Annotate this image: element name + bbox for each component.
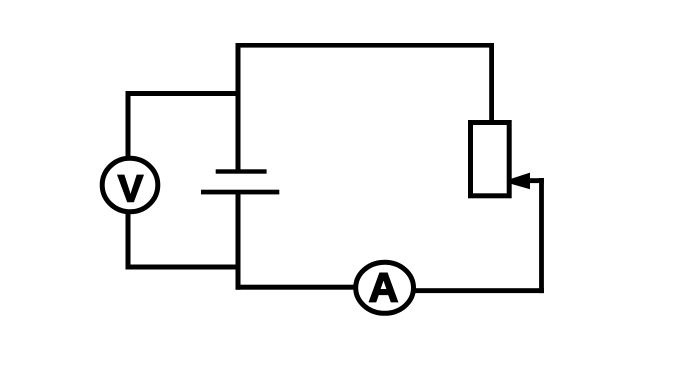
- wire right lower vertical (wiper down to bottom wire): [539, 178, 544, 293]
- wire voltmeter loop top horizontal: [126, 91, 241, 96]
- battery cell plate short (top): [216, 169, 267, 173]
- wire rheostat wiper horizontal: [526, 178, 544, 183]
- battery cell plate long (bottom): [201, 190, 279, 195]
- wire top horizontal (battery to rheostat): [236, 43, 495, 48]
- voltmeter V circle: [102, 158, 158, 212]
- rheostat R body: [471, 123, 510, 196]
- wire battery top vertical: [236, 43, 241, 171]
- ammeter A circle: [356, 262, 414, 313]
- voltmeter label V: [118, 175, 143, 201]
- wire battery bottom vertical: [236, 192, 241, 290]
- wire voltmeter loop bottom horizontal: [126, 265, 241, 270]
- wire bottom right horizontal (ammeter to right vertical): [384, 288, 544, 293]
- wire right upper vertical (top wire down to rheostat): [489, 43, 494, 121]
- wire bottom left horizontal (battery to ammeter): [236, 285, 386, 290]
- wire voltmeter loop left vertical: [126, 91, 131, 270]
- ammeter label A: [370, 273, 398, 301]
- rheostat wiper arrowhead: [511, 173, 530, 190]
